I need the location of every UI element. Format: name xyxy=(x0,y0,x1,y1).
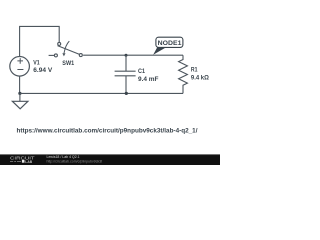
svg-text:6.94 V: 6.94 V xyxy=(33,68,52,74)
switch SW1 xyxy=(49,41,83,57)
svg-text:R1: R1 xyxy=(191,68,198,74)
capacitor C1 xyxy=(115,55,136,93)
svg-text:SW1: SW1 xyxy=(62,61,74,67)
svg-text:9.4 mF: 9.4 mF xyxy=(138,77,159,83)
wire: V1 bottom down to ground junction xyxy=(19,76,21,93)
node: C1 top junction xyxy=(125,54,128,57)
svg-text:V1: V1 xyxy=(33,60,40,66)
svg-text:https://www.circuitlab.com/cir: https://www.circuitlab.com/circuit/p9npu… xyxy=(17,128,198,135)
voltage source V1 xyxy=(10,57,30,77)
svg-text:LAB: LAB xyxy=(25,159,32,164)
ground xyxy=(12,93,28,108)
wire: SW1 to R1 top rail xyxy=(83,54,183,56)
footer bar xyxy=(0,154,220,165)
wire: bottom rail xyxy=(20,92,183,94)
svg-text:9.4 kΩ: 9.4 kΩ xyxy=(191,75,209,81)
node: C1 bottom junction xyxy=(125,92,128,95)
resistor R1 xyxy=(179,55,188,93)
footer logo CIRCUIT LAB xyxy=(10,156,35,164)
svg-text:C1: C1 xyxy=(138,69,146,75)
svg-text:http://circuitlab.com/c/p9npub: http://circuitlab.com/c/p9npubv9ck3t xyxy=(47,159,103,163)
node: bottom-left junction xyxy=(18,92,21,95)
node NODE1 flag xyxy=(153,37,183,55)
svg-text:NODE1: NODE1 xyxy=(158,40,182,47)
wire: V1 top up, top rail, down to SW1 common xyxy=(20,26,60,56)
